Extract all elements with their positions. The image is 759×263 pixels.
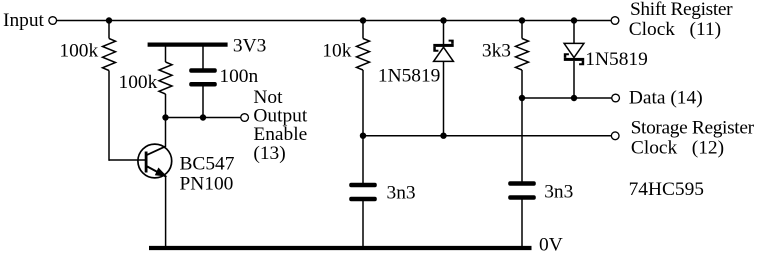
- wire: R1 column top lead (node Input rail to R1): [108, 21, 110, 39]
- resistor R4 3k3: [516, 39, 529, 71]
- node: rail / R3 junction: [360, 17, 366, 23]
- wire: Q1 emitter down to 0V rail: [165, 176, 167, 248]
- terminal: Not Output Enable (13): [241, 114, 249, 122]
- transistor Q1 BC547/PN100: [138, 144, 172, 178]
- wire: R2 top lead from 3V3 rail: [165, 47, 167, 63]
- svg-text:74HC595: 74HC595: [629, 179, 704, 200]
- wire: top rail from Input terminal to Shift Register Clock terminal: [57, 20, 611, 22]
- wire: C3 bottom lead to 0V rail: [521, 200, 523, 249]
- wire: D2 cathode lead from rail: [573, 21, 575, 44]
- diode D2 1N5819 (schottky, cathode down): [564, 43, 584, 65]
- wire: C2 bottom lead to 0V rail: [362, 201, 364, 248]
- svg-text:Storage Register: Storage Register: [631, 117, 755, 138]
- wire: R2 bottom lead to NotOE node: [165, 94, 167, 118]
- svg-text:Data (14): Data (14): [629, 87, 703, 108]
- capacitor C2 3n3 (storage): [349, 183, 377, 202]
- svg-text:0V: 0V: [539, 234, 563, 255]
- svg-text:100k: 100k: [59, 40, 98, 61]
- svg-text:1N5819: 1N5819: [585, 49, 647, 70]
- svg-text:Shift Register: Shift Register: [630, 0, 733, 20]
- node: rail / R1 junction: [106, 17, 112, 23]
- resistor R1 100k (Input to base divider): [103, 39, 116, 71]
- terminal: Input: [49, 17, 57, 25]
- node: storage / D1 junction: [440, 133, 446, 139]
- wire: base wire into Q1: [109, 159, 145, 161]
- node: rail / D1 junction: [440, 17, 446, 23]
- resistor R2 100k (3V3 to NotOE node): [159, 62, 172, 94]
- capacitor C1 100n: [189, 68, 217, 86]
- wire: D1 top lead from rail: [443, 21, 445, 45]
- svg-text:BC547: BC547: [180, 154, 235, 175]
- node: data / R4 / C3 junction: [519, 95, 525, 101]
- wire: R3 bottom lead through storage node to C2: [362, 70, 364, 183]
- svg-text:Clock (11): Clock (11): [629, 19, 721, 40]
- wire: D2 anode... cathode lead down to data node: [573, 61, 575, 98]
- wire: R3 top lead from rail: [362, 21, 364, 39]
- svg-text:100n: 100n: [219, 66, 258, 87]
- svg-text:PN100: PN100: [180, 174, 234, 195]
- node: data / D2 junction: [571, 95, 577, 101]
- wire: NotOE node line to terminal: [166, 117, 241, 119]
- svg-text:3k3: 3k3: [482, 40, 511, 61]
- wire: R1 bottom lead down to transistor base: [108, 71, 110, 161]
- terminal: Data (14): [612, 94, 620, 102]
- svg-text:1N5819: 1N5819: [378, 65, 440, 86]
- wire: storage register clock node line: [363, 135, 611, 137]
- power rail 3V3: [148, 42, 228, 46]
- terminal: Storage Register Clock (12): [611, 132, 619, 140]
- terminal: Shift Register Clock (11): [611, 17, 619, 25]
- node: NotOE / R2 / collector junction: [162, 114, 168, 120]
- svg-text:100k: 100k: [119, 72, 158, 93]
- node: rail / D2 junction: [571, 17, 577, 23]
- wire: R4 top lead from rail: [521, 21, 523, 39]
- wire: R4 bottom lead to data node, crossover of storage line, down to C3: [521, 70, 523, 182]
- wire: C1 top lead from 3V3 rail: [202, 47, 204, 69]
- wire: D1 anode down to storage node line: [443, 61, 445, 135]
- node: NotOE / C1 junction: [200, 114, 206, 120]
- capacitor C3 3n3 (data): [508, 181, 536, 200]
- wire: Q1 collector up to NotOE node: [165, 118, 167, 147]
- svg-text:10k: 10k: [322, 40, 351, 61]
- svg-text:3n3: 3n3: [387, 182, 416, 203]
- svg-text:3V3: 3V3: [233, 36, 266, 57]
- svg-text:Clock (12): Clock (12): [631, 138, 724, 159]
- svg-text:(13): (13): [253, 143, 285, 164]
- svg-text:3n3: 3n3: [544, 181, 573, 202]
- wire: C1 bottom lead to NotOE node: [202, 87, 204, 118]
- resistor R3 10k: [357, 39, 370, 71]
- node: storage / R3 / C2 junction: [360, 133, 366, 139]
- svg-text:Input: Input: [3, 10, 45, 31]
- node: rail / R4 junction: [519, 17, 525, 23]
- ground rail 0V: [149, 246, 532, 250]
- diode D1 1N5819 (schottky, cathode up): [433, 40, 453, 62]
- wire: data node line to terminal: [522, 97, 612, 99]
